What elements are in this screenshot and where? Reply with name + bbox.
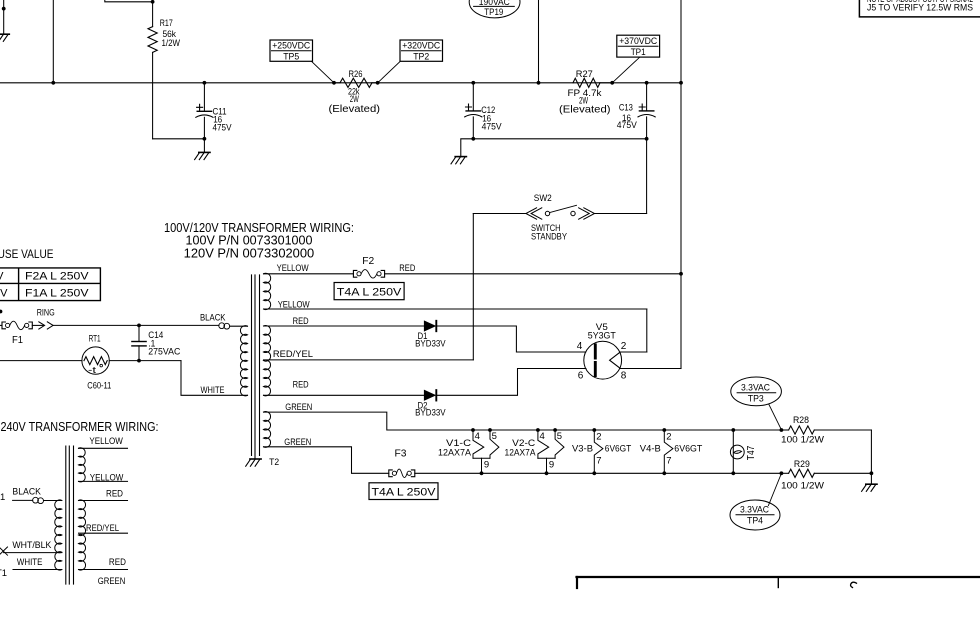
ground T2 shield — [250, 458, 261, 460]
fuse F2 — [353, 270, 356, 277]
wire 6.3V winding bottom lead GREEN to F3 — [264, 447, 389, 474]
node junction R28 left — [780, 428, 784, 432]
svg-text:V4-B: V4-B — [640, 444, 661, 455]
wire TP5 pointer — [312, 61, 334, 83]
svg-text:YELLOW: YELLOW — [89, 436, 123, 447]
svg-text:RED: RED — [399, 263, 415, 274]
test loop T47 on heater line — [732, 430, 734, 473]
svg-text:F3: F3 — [395, 448, 407, 460]
transformer T2 secondary 5V winding — [264, 273, 271, 309]
svg-text:1/2W: 1/2W — [162, 38, 181, 49]
wire HV bottom lead RED to D2 — [264, 394, 425, 396]
note box top right — [859, 0, 980, 17]
transformer T2 primary winding — [240, 326, 247, 396]
wire switch to HV center tap (vertical x=473) — [472, 214, 474, 360]
svg-text:T1: T1 — [0, 568, 7, 579]
wire main B+ bus (y=83) — [0, 82, 681, 84]
label box fuse F3 rating — [369, 483, 438, 500]
svg-text:RED: RED — [106, 489, 123, 500]
svg-text:2: 2 — [621, 341, 627, 352]
wire AC neutral from left edge — [0, 360, 82, 362]
thermal breaker T1 — [33, 497, 39, 503]
node junction R27 right — [610, 81, 614, 85]
wire R28 right down to R29 right — [870, 430, 872, 473]
node junction C12 bottom — [471, 137, 475, 141]
wire AC hot to transformer primary — [53, 324, 219, 326]
wire TP1 pointer — [612, 57, 640, 83]
wire ground jog from C12 bottom — [461, 139, 474, 157]
node junction x681/filament wire — [679, 272, 683, 276]
svg-text:T47: T47 — [746, 445, 757, 460]
svg-text:1: 1 — [0, 492, 5, 503]
svg-text:GREEN: GREEN — [98, 576, 126, 587]
wire filter bottom rail C12 to C13 — [473, 138, 646, 140]
wire 6.3V winding top lead GREEN to heater bus — [264, 412, 782, 430]
transformer T1 secondary 5V winding — [79, 448, 86, 482]
wire horizontal R17-branch to C11 bottom — [153, 138, 205, 140]
wire HV top lead RED to D1 — [264, 325, 425, 327]
resistor R27 — [573, 78, 600, 87]
svg-text:-t: -t — [88, 365, 96, 376]
svg-text:9: 9 — [484, 460, 489, 471]
node dots V4 heater — [662, 428, 666, 432]
ground top-left — [0, 33, 9, 35]
svg-text:F2: F2 — [362, 255, 374, 267]
resistor R17 — [148, 27, 157, 53]
wire 5V winding bottom lead YELLOW to V5 pin2 — [264, 308, 647, 310]
wire D2 to V5 pin 6 — [437, 369, 586, 396]
svg-text:V3-B: V3-B — [572, 444, 593, 455]
wire D1 to V5 pin 4 — [437, 326, 585, 352]
svg-text:6V6GT: 6V6GT — [674, 444, 702, 455]
wire V5 pin 2 lead — [620, 351, 647, 353]
svg-text:(Elevated): (Elevated) — [559, 103, 611, 115]
svg-text:RED: RED — [293, 379, 309, 390]
svg-text:100 1/2W: 100 1/2W — [781, 481, 824, 492]
svg-text:+320VDC: +320VDC — [402, 41, 440, 52]
svg-text:TP1: TP1 — [631, 47, 646, 58]
svg-text:220/240V: 220/240V — [0, 288, 8, 300]
svg-text:275VAC: 275VAC — [148, 346, 180, 357]
test point box TP1 +370VDC — [617, 35, 660, 57]
svg-text:5Y3GT: 5Y3GT — [588, 331, 616, 342]
wire switch right lead — [595, 213, 647, 215]
wire 5V winding top lead YELLOW to F2 — [264, 273, 354, 275]
wire C13 bottom lead — [646, 117, 648, 139]
svg-text:R17: R17 — [160, 18, 173, 29]
svg-text:TP19: TP19 — [484, 7, 503, 18]
wire TP4 pointer — [768, 473, 781, 505]
wire HV center tap RED/YEL — [264, 359, 474, 361]
node junction bus/C11 — [203, 81, 207, 85]
svg-text:RED: RED — [109, 557, 126, 568]
wire C11 bottom lead to ground — [203, 117, 205, 152]
wire RED from F2 to rectifier filament junction — [385, 273, 681, 275]
svg-text:TP2: TP2 — [413, 51, 429, 62]
wire C11 top lead — [203, 83, 205, 112]
test point box TP2 +320VDC — [400, 40, 443, 61]
wire vertical from TP19 area to bus — [538, 0, 540, 83]
svg-text:WHITE: WHITE — [201, 385, 225, 396]
svg-text:RED: RED — [293, 316, 309, 327]
svg-text:YELLOW: YELLOW — [277, 263, 309, 274]
svg-text:RED/YEL: RED/YEL — [86, 523, 119, 534]
svg-text:C13: C13 — [619, 103, 633, 114]
test point ellipse TP19 190VAC — [469, 0, 520, 18]
node junction R26 left — [332, 81, 336, 85]
node junction bus/x53 — [51, 81, 55, 85]
node junction at C11 bottom — [203, 137, 207, 141]
node dot at left edge — [0, 310, 2, 314]
transformer T2 core — [251, 275, 253, 456]
svg-text:R27: R27 — [576, 69, 593, 80]
wire R17 bottom crossing bus down to C11 bottom rail — [152, 52, 154, 138]
svg-text:T4A L 250V: T4A L 250V — [337, 286, 402, 298]
diode D1 — [424, 321, 435, 331]
node junction dot on left stub — [2, 7, 6, 11]
svg-text:3.3VAC: 3.3VAC — [740, 505, 769, 516]
transformer T1 secondary HV winding — [79, 500, 86, 570]
svg-text:100 1/2W: 100 1/2W — [781, 435, 824, 446]
svg-text:4: 4 — [540, 431, 545, 442]
svg-text:TP5: TP5 — [283, 51, 299, 62]
wire C13 top lead — [646, 83, 648, 111]
svg-text:TP4: TP4 — [747, 515, 763, 526]
wire RT1 to primary WHITE — [109, 360, 181, 362]
capacitor C14 — [138, 325, 140, 341]
node junction bus/C13 — [645, 81, 649, 85]
svg-text:WHITE: WHITE — [17, 557, 43, 568]
wire C12 top lead — [472, 83, 474, 111]
svg-text:9: 9 — [549, 460, 554, 471]
test point box TP5 +250VDC — [270, 40, 313, 61]
tube heater V1-C 12AX7A — [473, 430, 484, 458]
svg-text:F1A L 250V: F1A L 250V — [25, 288, 89, 300]
svg-text:FUSE VALUE: FUSE VALUE — [0, 247, 54, 261]
svg-text:R28: R28 — [793, 415, 809, 426]
node junction bus end x=681 — [679, 81, 683, 85]
svg-text:RED/YEL: RED/YEL — [273, 349, 313, 360]
resistor R26 — [334, 82, 340, 84]
wire partial component box at top edge — [105, 0, 153, 2]
svg-text:R26: R26 — [349, 69, 363, 80]
svg-text:3.3VAC: 3.3VAC — [741, 383, 770, 394]
tube heater V4-B 6V6GT — [664, 430, 673, 473]
transformer T2 secondary 6.3V winding — [264, 412, 271, 448]
node dots V1 heater — [471, 428, 475, 432]
wire ground stub — [870, 473, 872, 484]
svg-text:+370VDC: +370VDC — [619, 36, 657, 47]
svg-text:BYD33V: BYD33V — [415, 408, 446, 418]
node junction bus/x538 — [537, 81, 541, 85]
svg-text:(Elevated): (Elevated) — [329, 103, 381, 115]
label box fuse F2 rating — [334, 283, 404, 300]
svg-text:6V6GT: 6V6GT — [605, 444, 632, 455]
fuse F1 — [0, 324, 2, 326]
wire stub top-left edge — [3, 0, 5, 34]
svg-text:RT1: RT1 — [89, 333, 101, 344]
svg-text:8: 8 — [621, 370, 627, 381]
svg-text:5: 5 — [557, 431, 562, 442]
svg-text:F1: F1 — [12, 334, 23, 346]
tube heater V2-C 12AX7A — [538, 430, 549, 458]
transformer T1 primary winding — [55, 500, 62, 570]
svg-text:J5 TO VERIFY 12.5W RMS: J5 TO VERIFY 12.5W RMS — [867, 2, 973, 13]
svg-text:7: 7 — [596, 456, 601, 467]
svg-text:4: 4 — [577, 341, 583, 352]
wire C12 bottom lead — [472, 117, 474, 139]
svg-text:120V P/N 0073302000: 120V P/N 0073302000 — [184, 246, 315, 260]
wire heater bottom bus — [415, 472, 782, 474]
node junction C14 bottom — [137, 359, 141, 363]
svg-text:GREEN: GREEN — [285, 402, 312, 413]
svg-text:RING: RING — [37, 307, 55, 317]
node dots V3 heater — [592, 428, 596, 432]
svg-text:F2A L 250V: F2A L 250V — [25, 271, 89, 283]
wire switch left lead — [473, 213, 526, 215]
ground below C12 — [455, 156, 466, 158]
test point ellipse TP4 3.3VAC — [730, 500, 780, 530]
svg-text:12AX7A: 12AX7A — [438, 448, 472, 459]
wire rectifier output vertical x=681 — [680, 0, 682, 83]
node junction bus/C12 — [471, 81, 475, 85]
node junction R26 right — [376, 81, 380, 85]
partial letter in title block — [851, 582, 857, 587]
svg-text:C60-11: C60-11 — [87, 380, 111, 391]
svg-text:BLACK: BLACK — [200, 313, 226, 324]
capacitor C11 — [197, 104, 203, 110]
svg-text:STANDBY: STANDBY — [531, 232, 568, 243]
resistor R29 — [781, 472, 788, 474]
thermistor RT1 — [82, 347, 109, 374]
svg-text:12AX7A: 12AX7A — [505, 448, 537, 459]
diode D2 — [424, 390, 435, 400]
ground heater return — [866, 483, 877, 485]
test point ellipse TP3 3.3VAC — [731, 377, 782, 406]
wire down to V5 pin 2 — [646, 309, 648, 352]
title block border — [577, 576, 980, 578]
svg-text:GREEN: GREEN — [284, 437, 311, 448]
svg-text:YELLOW: YELLOW — [278, 299, 310, 310]
wire TP3 pointer — [769, 405, 782, 430]
transformer T1 core — [65, 446, 67, 584]
wire vertical from top edge at x=53 — [52, 0, 54, 83]
wire thermal to primary — [230, 325, 248, 327]
svg-text:SW2: SW2 — [534, 193, 552, 204]
svg-text:BYD33V: BYD33V — [415, 338, 446, 348]
wire box corner down to R17 — [152, 2, 154, 27]
wire C13 bottom down to standby switch — [646, 139, 648, 214]
svg-text:475V: 475V — [617, 120, 638, 131]
node dot at box corner — [151, 0, 155, 4]
svg-text:100/120V: 100/120V — [0, 271, 4, 283]
capacitor C12 — [466, 104, 472, 110]
svg-text:2: 2 — [596, 431, 601, 442]
svg-text:475V: 475V — [213, 122, 233, 133]
resistor R28 — [781, 429, 788, 431]
svg-text:TP3: TP3 — [748, 393, 764, 404]
fuse F3 — [389, 470, 392, 477]
svg-text:R29: R29 — [794, 459, 810, 470]
svg-text:2: 2 — [666, 431, 671, 442]
node junction C14 top — [137, 324, 141, 328]
wire TP2 pointer — [378, 61, 401, 83]
svg-text:BLACK: BLACK — [12, 487, 41, 498]
tube heater V3-B 6V6GT — [594, 430, 603, 473]
ground below C11 — [199, 151, 210, 153]
svg-text:T4A L 250V: T4A L 250V — [372, 487, 437, 499]
node junction R29 left — [780, 471, 784, 475]
svg-text:6: 6 — [578, 370, 584, 381]
tube V5 5Y3GT rectifier — [584, 341, 622, 379]
svg-text:5: 5 — [492, 431, 497, 442]
svg-text:+250VDC: +250VDC — [272, 41, 310, 52]
svg-text:WHT/BLK: WHT/BLK — [12, 540, 52, 551]
capacitor C13 — [639, 104, 645, 110]
wire V5 pin 8 to output — [620, 368, 681, 370]
svg-text:240V TRANSFORMER WIRING:: 240V TRANSFORMER WIRING: — [1, 420, 159, 434]
node junction C13 bottom — [645, 137, 649, 141]
svg-text:7: 7 — [666, 456, 671, 467]
svg-text:475V: 475V — [482, 122, 503, 133]
node dots V2 heater — [536, 428, 540, 432]
transformer T2 secondary HV winding — [264, 326, 271, 396]
svg-text:4: 4 — [475, 431, 480, 442]
node junction heater return / ground — [870, 471, 874, 475]
svg-text:T2: T2 — [269, 457, 279, 468]
